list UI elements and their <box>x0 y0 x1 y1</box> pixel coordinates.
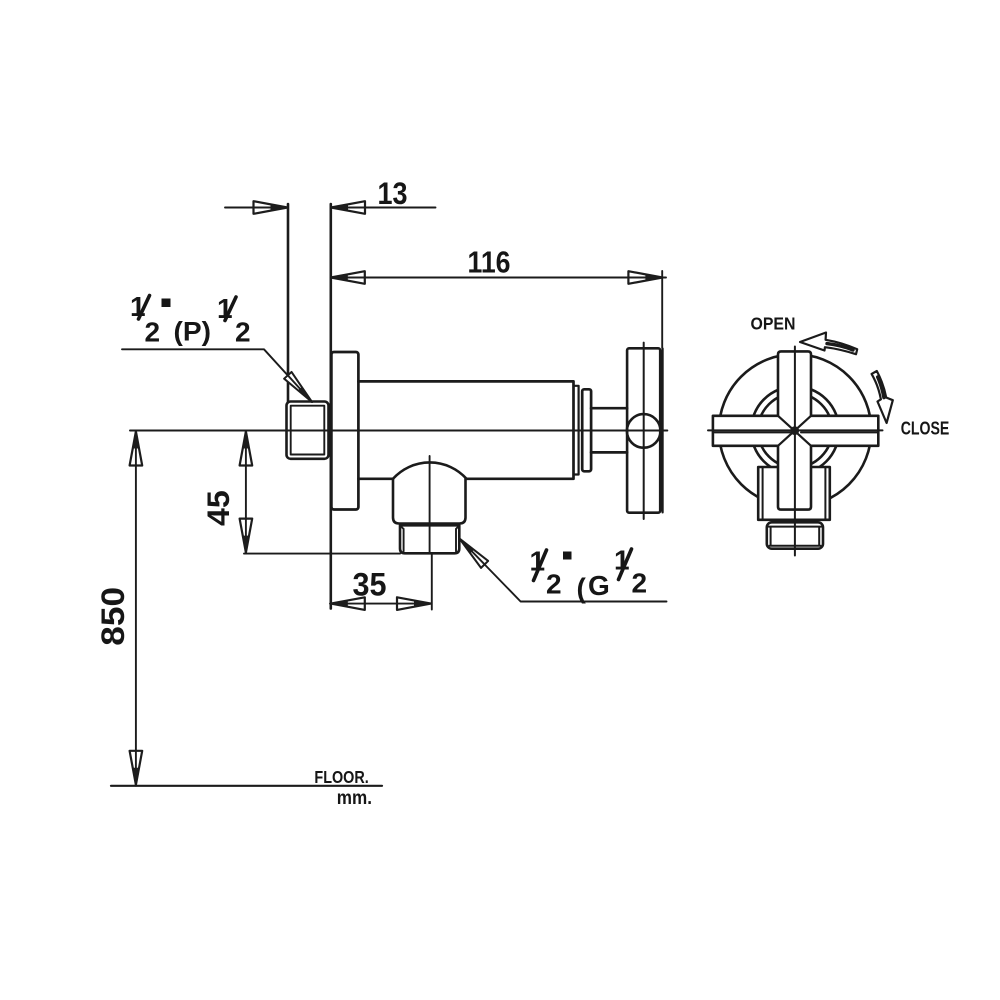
dim 850 arrow bottom <box>130 751 143 785</box>
dim 850 line <box>135 431 137 786</box>
front view vertical centerline <box>794 347 796 556</box>
nut bottom extension line <box>244 553 400 555</box>
valve body (side view) <box>358 381 573 478</box>
dim 13 line right tail <box>331 207 436 209</box>
dim 35 arrow left <box>331 597 365 610</box>
svg-text:(: ( <box>577 573 587 604</box>
dim 116 line <box>331 277 666 279</box>
dim 116 arrow right <box>628 271 662 284</box>
wall extension line left <box>287 204 290 402</box>
leader arrow (P) <box>284 372 316 405</box>
svg-text:CLOSE: CLOSE <box>901 418 950 439</box>
inner circle inner <box>758 393 832 467</box>
svg-text:(P): (P) <box>174 317 212 347</box>
wall face line right <box>329 204 332 609</box>
dim 45 line <box>245 431 247 554</box>
dim 13 line left tail <box>225 207 288 209</box>
outlet centerline <box>429 456 431 554</box>
leader line for (G) label <box>460 539 667 602</box>
dim 35 arrow right <box>397 597 431 610</box>
cross handle miter diagonals <box>778 416 811 446</box>
slash P label frac2 <box>225 297 236 321</box>
dim 35 extension line <box>431 554 433 610</box>
svg-text:45: 45 <box>200 490 236 526</box>
dim 850 arrow top <box>130 432 143 466</box>
handle hub circle (side view) <box>627 414 661 448</box>
bonnet ring (side view) <box>582 389 591 471</box>
front view horizontal centerline <box>708 429 883 431</box>
handle vertical centerline (side view) <box>643 343 645 519</box>
bonnet (front view) <box>758 467 830 520</box>
svg-text:2: 2 <box>546 568 562 599</box>
dim 45 arrow bottom <box>240 519 253 553</box>
cross handle silhouette (front view) <box>713 351 878 509</box>
dim 116 arrow left <box>331 271 365 284</box>
escutcheon flange (side view) <box>331 352 358 510</box>
outlet nut (front view) <box>767 522 823 548</box>
svg-text:35: 35 <box>353 567 387 603</box>
svg-text:2: 2 <box>235 317 251 348</box>
svg-text:116: 116 <box>468 245 511 280</box>
svg-text:13: 13 <box>378 175 408 211</box>
dim 13 arrow right <box>331 201 365 214</box>
main horizontal centerline <box>130 430 667 432</box>
dim 45 arrow top <box>240 432 253 466</box>
svg-text:2: 2 <box>145 317 161 348</box>
svg-text:850: 850 <box>95 587 131 646</box>
cross handle inner face lines <box>715 431 878 433</box>
floor line <box>111 785 382 787</box>
dim 116 extension line <box>661 271 663 348</box>
svg-text:2: 2 <box>632 568 648 599</box>
svg-text:G: G <box>588 570 610 601</box>
slash G label frac2 <box>619 549 632 580</box>
OPEN curved arrow <box>800 333 857 355</box>
escutcheon circle (front view) <box>719 354 871 506</box>
svg-text:mm.: mm. <box>337 788 372 809</box>
svg-text:FLOOR.: FLOOR. <box>314 767 368 787</box>
outlet nut (side view) <box>400 525 459 553</box>
dim 13 arrow left <box>254 201 288 214</box>
outlet tube sides <box>393 479 466 524</box>
center dot <box>790 426 799 435</box>
svg-text:OPEN: OPEN <box>751 314 796 334</box>
outlet elbow dome <box>393 462 467 478</box>
leader line for (P) label <box>122 349 312 402</box>
valve stem (side view) <box>591 408 627 452</box>
supply hex nut (side view) <box>287 402 329 459</box>
valve body end cap <box>574 386 579 475</box>
fraction slashes <box>139 296 632 581</box>
CLOSE curved arrow <box>872 371 893 423</box>
leader arrow (G) <box>456 535 488 568</box>
cross handle (side view) <box>627 348 660 512</box>
slash P label frac1 <box>139 296 150 320</box>
slash G label frac1 <box>534 550 547 581</box>
inner circle outer <box>751 386 839 474</box>
dim 35 line <box>330 603 431 605</box>
